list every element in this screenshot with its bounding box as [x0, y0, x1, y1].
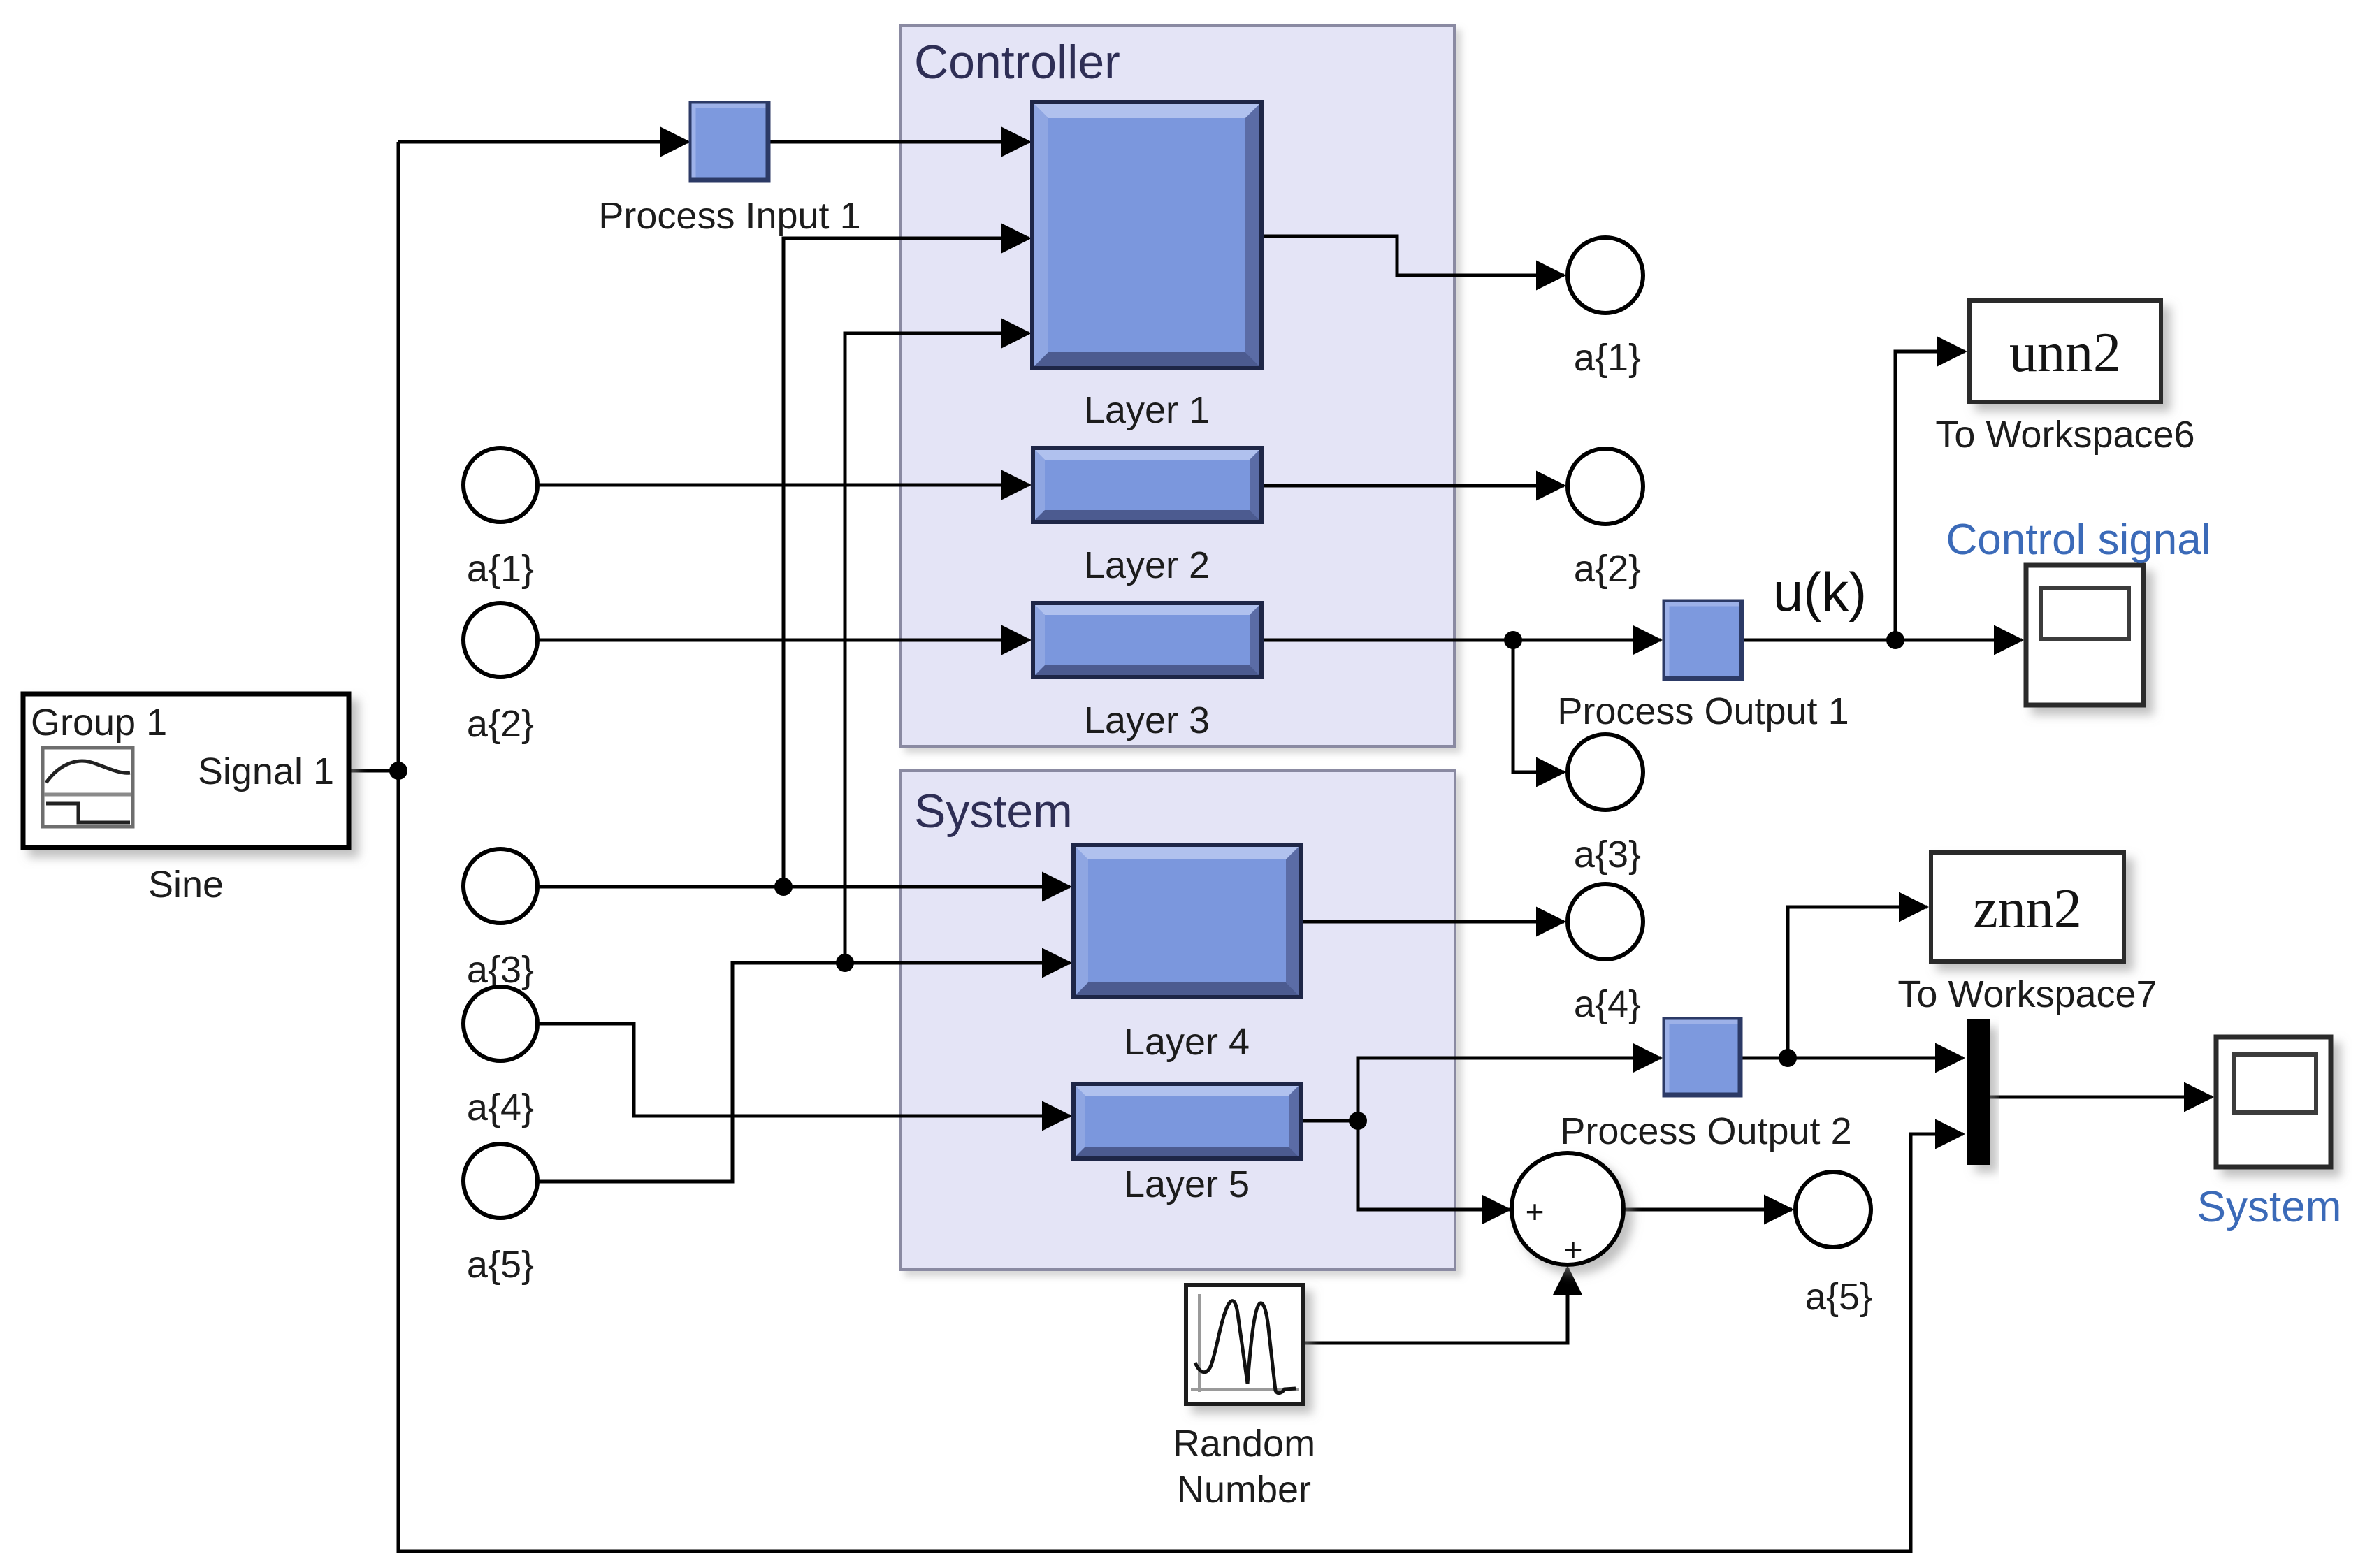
svg-text:a{2}: a{2}	[467, 703, 534, 745]
svg-text:znn2: znn2	[1973, 878, 2082, 940]
scope Control signal	[2026, 565, 2143, 705]
block Process Input 1 (blue square)	[691, 103, 768, 180]
icon Random Number waveform	[1191, 1294, 1299, 1393]
wire branch a{5} up to Layer 1 input 3	[845, 333, 1029, 963]
wire branch down to a{3} right	[1513, 640, 1564, 772]
wire Layer 3 output to Process Output 1	[1261, 639, 1661, 642]
wire Layer 1 output to a{1} right	[1261, 236, 1564, 275]
svg-text:u(k): u(k)	[1773, 561, 1867, 623]
svg-text:Control signal: Control signal	[1946, 516, 2211, 564]
svg-text:Random: Random	[1173, 1423, 1315, 1465]
port a{1} right	[1568, 238, 1643, 313]
block znn2 To Workspace7	[1931, 852, 2124, 961]
block Layer 3 (beveled)	[1033, 603, 1261, 677]
wire Layer 5 output to junction	[1301, 1119, 1358, 1123]
wire a{5} left to Layer 4 input 2	[538, 963, 1070, 1182]
wire Mux output to System scope	[1990, 1096, 2212, 1099]
port a{5} left	[463, 1144, 537, 1218]
block Sine (Signal Builder, Group 1 / Signal 1)	[23, 694, 349, 848]
wire branch up to znn2	[1788, 907, 1927, 1058]
junction dot Layer 5 output	[1349, 1112, 1367, 1130]
svg-text:System: System	[2197, 1183, 2342, 1231]
svg-text:a{4}: a{4}	[1574, 983, 1641, 1025]
block Random Number	[1186, 1285, 1303, 1404]
icon Sine signal-builder	[43, 748, 133, 827]
wire trunk: Signal 1 junction up to top rail, down to bottom rail, to Mux input 2	[349, 142, 1963, 1551]
svg-text:+: +	[1564, 1231, 1583, 1268]
svg-text:Layer 3: Layer 3	[1084, 699, 1210, 741]
wire junction up to Process Output 2	[1358, 1058, 1661, 1121]
mux Mux	[1967, 1019, 1990, 1165]
svg-text:Group 1: Group 1	[31, 702, 167, 743]
port a{3} left	[463, 849, 537, 923]
wire branch a{3} up to Layer 1 input 2	[783, 238, 1029, 887]
svg-text:a{1}: a{1}	[1574, 337, 1641, 379]
wire Sum output to a{5} right	[1623, 1208, 1792, 1212]
svg-text:a{1}: a{1}	[467, 548, 534, 590]
port a{4} right	[1568, 884, 1643, 959]
svg-text:To Workspace6: To Workspace6	[1935, 414, 2194, 456]
scope System	[2216, 1037, 2331, 1167]
svg-text:Process Output 2: Process Output 2	[1560, 1110, 1851, 1152]
subsystem area System	[900, 771, 1455, 1270]
svg-text:a{2}: a{2}	[1574, 548, 1641, 590]
port a{3} right	[1568, 734, 1643, 810]
wire Layer 4 output to a{4} right	[1301, 920, 1564, 924]
block unn2 To Workspace6	[1969, 300, 2161, 402]
svg-text:unn2: unn2	[2009, 322, 2121, 384]
block Process Output 1 (blue square)	[1665, 602, 1742, 678]
wire a{3} left to Layer 4 input 1	[538, 885, 1070, 889]
sum Sum (round)	[1512, 1153, 1623, 1265]
wire top rail to Process Input 1	[398, 140, 688, 144]
svg-text:Controller: Controller	[914, 36, 1120, 89]
wire Process Input 1 to Layer 1 input 1	[768, 140, 1029, 144]
port a{5} right	[1795, 1172, 1871, 1247]
svg-text:a{3}: a{3}	[1574, 834, 1641, 876]
svg-text:a{5}: a{5}	[467, 1244, 534, 1286]
svg-text:System: System	[914, 785, 1073, 838]
svg-text:+: +	[1526, 1193, 1545, 1230]
junction dot Layer 3 output branch	[1504, 631, 1522, 649]
svg-text:a{5}: a{5}	[1805, 1276, 1872, 1318]
port a{2} right	[1568, 449, 1643, 524]
wire u(k): Process Output 1 to Control signal scope	[1742, 639, 2022, 642]
port a{2} left	[463, 603, 537, 677]
block Layer 2 (beveled)	[1033, 448, 1261, 522]
svg-text:Signal 1: Signal 1	[198, 750, 334, 792]
svg-text:Layer 2: Layer 2	[1084, 544, 1210, 586]
svg-text:Sine: Sine	[148, 864, 224, 906]
port a{4} left	[463, 987, 537, 1061]
wire Random Number to Sum bottom input	[1303, 1268, 1568, 1343]
block Layer 1 (beveled)	[1032, 102, 1261, 368]
wire a{2} left to Layer 3	[537, 639, 1029, 642]
svg-text:Number: Number	[1177, 1469, 1311, 1511]
svg-text:Layer 5: Layer 5	[1124, 1163, 1250, 1205]
wire junction down to Sum	[1358, 1121, 1510, 1210]
wire a{4} left to Layer 5	[538, 1024, 1070, 1116]
wire Process Output 2 to Mux input 1	[1740, 1057, 1963, 1060]
svg-text:Layer 4: Layer 4	[1124, 1021, 1250, 1063]
svg-text:Layer 1: Layer 1	[1084, 389, 1210, 431]
block Layer 4 (beveled)	[1073, 845, 1301, 997]
subsystem area Controller	[900, 25, 1454, 746]
wire Layer 2 output to a{2} right	[1261, 484, 1564, 488]
svg-text:Process Input 1: Process Input 1	[598, 195, 860, 237]
svg-text:Process Output 1: Process Output 1	[1557, 690, 1849, 732]
port a{1} left	[463, 448, 537, 522]
wire a{1} left to Layer 2	[537, 484, 1029, 487]
junction dot a{5} branch	[836, 954, 854, 972]
svg-text:a{4}: a{4}	[467, 1087, 534, 1128]
wire branch up to unn2	[1895, 351, 1965, 640]
block Layer 5 (beveled)	[1073, 1084, 1301, 1159]
junction dot a{3} branch	[774, 878, 793, 896]
junction dot Signal 1	[389, 762, 407, 780]
svg-text:To Workspace7: To Workspace7	[1897, 973, 2157, 1015]
junction dot Process Output 2 branch	[1779, 1049, 1797, 1067]
junction dot u(k) branch	[1886, 631, 1904, 649]
block Process Output 2 (blue square)	[1665, 1019, 1740, 1095]
